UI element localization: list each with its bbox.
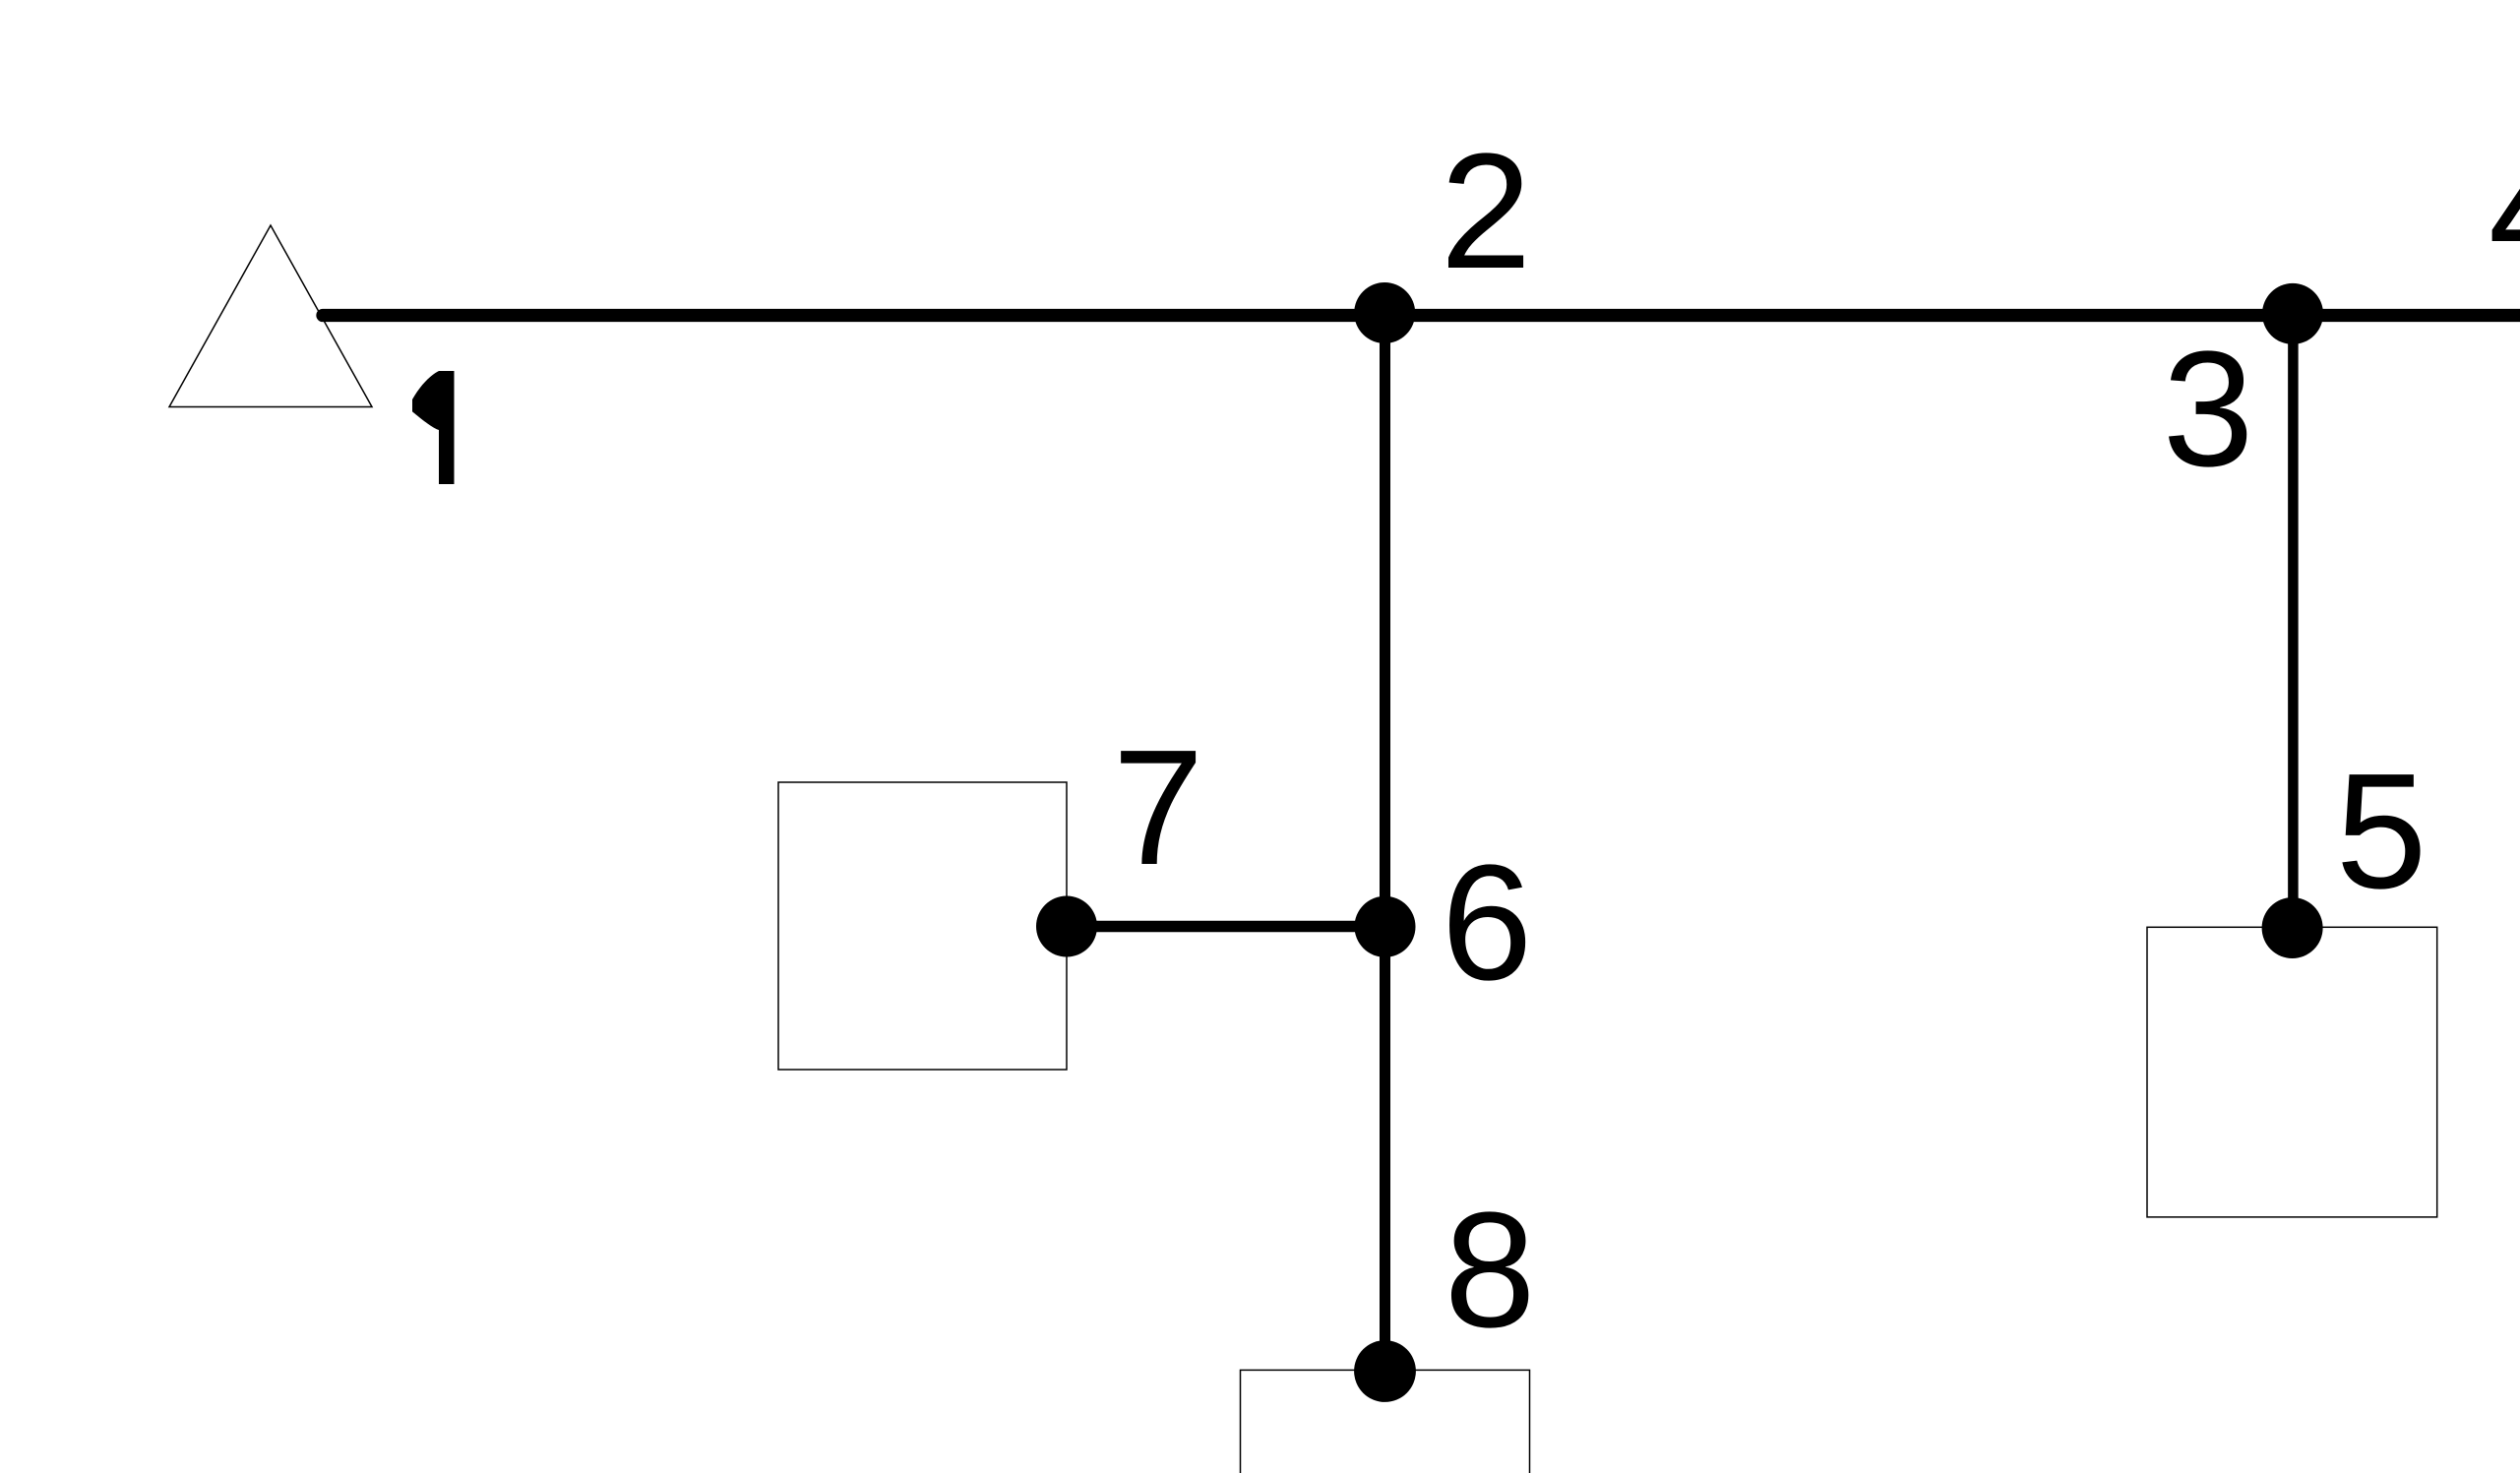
node 3 junction dot [2262, 283, 2323, 344]
node label 1 (custom Arial-style glyph) [412, 371, 455, 484]
wire: branch node6 to node7 [1067, 921, 1385, 933]
svg-text:3: 3 [2163, 318, 2254, 501]
svg-text:7: 7 [1113, 716, 1204, 899]
node 5 dot [2262, 897, 2323, 958]
svg-text:4: 4 [2489, 119, 2520, 302]
node 6 junction dot [1355, 896, 1416, 957]
load square at node 8 (bottom cut off) [1241, 1370, 1530, 1473]
node 8 dot [1354, 1340, 1416, 1402]
source triangle (substation) at node 1 [169, 225, 372, 407]
svg-text:5: 5 [2336, 740, 2428, 923]
wire: branch node6 to node8 [1380, 927, 1390, 1372]
svg-text:2: 2 [1441, 120, 1532, 303]
load square at node 5 [2147, 927, 2437, 1217]
node 7 dot [1036, 896, 1097, 957]
node 2 junction dot [1354, 282, 1415, 343]
load square at node 7 [778, 782, 1067, 1070]
svg-text:8: 8 [1444, 1179, 1536, 1362]
wire: branch node3 to node5 [2288, 314, 2299, 928]
svg-text:6: 6 [1442, 831, 1533, 1014]
wire: main feeder line node1-node2-node3-node4 [323, 309, 2520, 322]
wire: branch node2 to node6 [1380, 313, 1390, 927]
